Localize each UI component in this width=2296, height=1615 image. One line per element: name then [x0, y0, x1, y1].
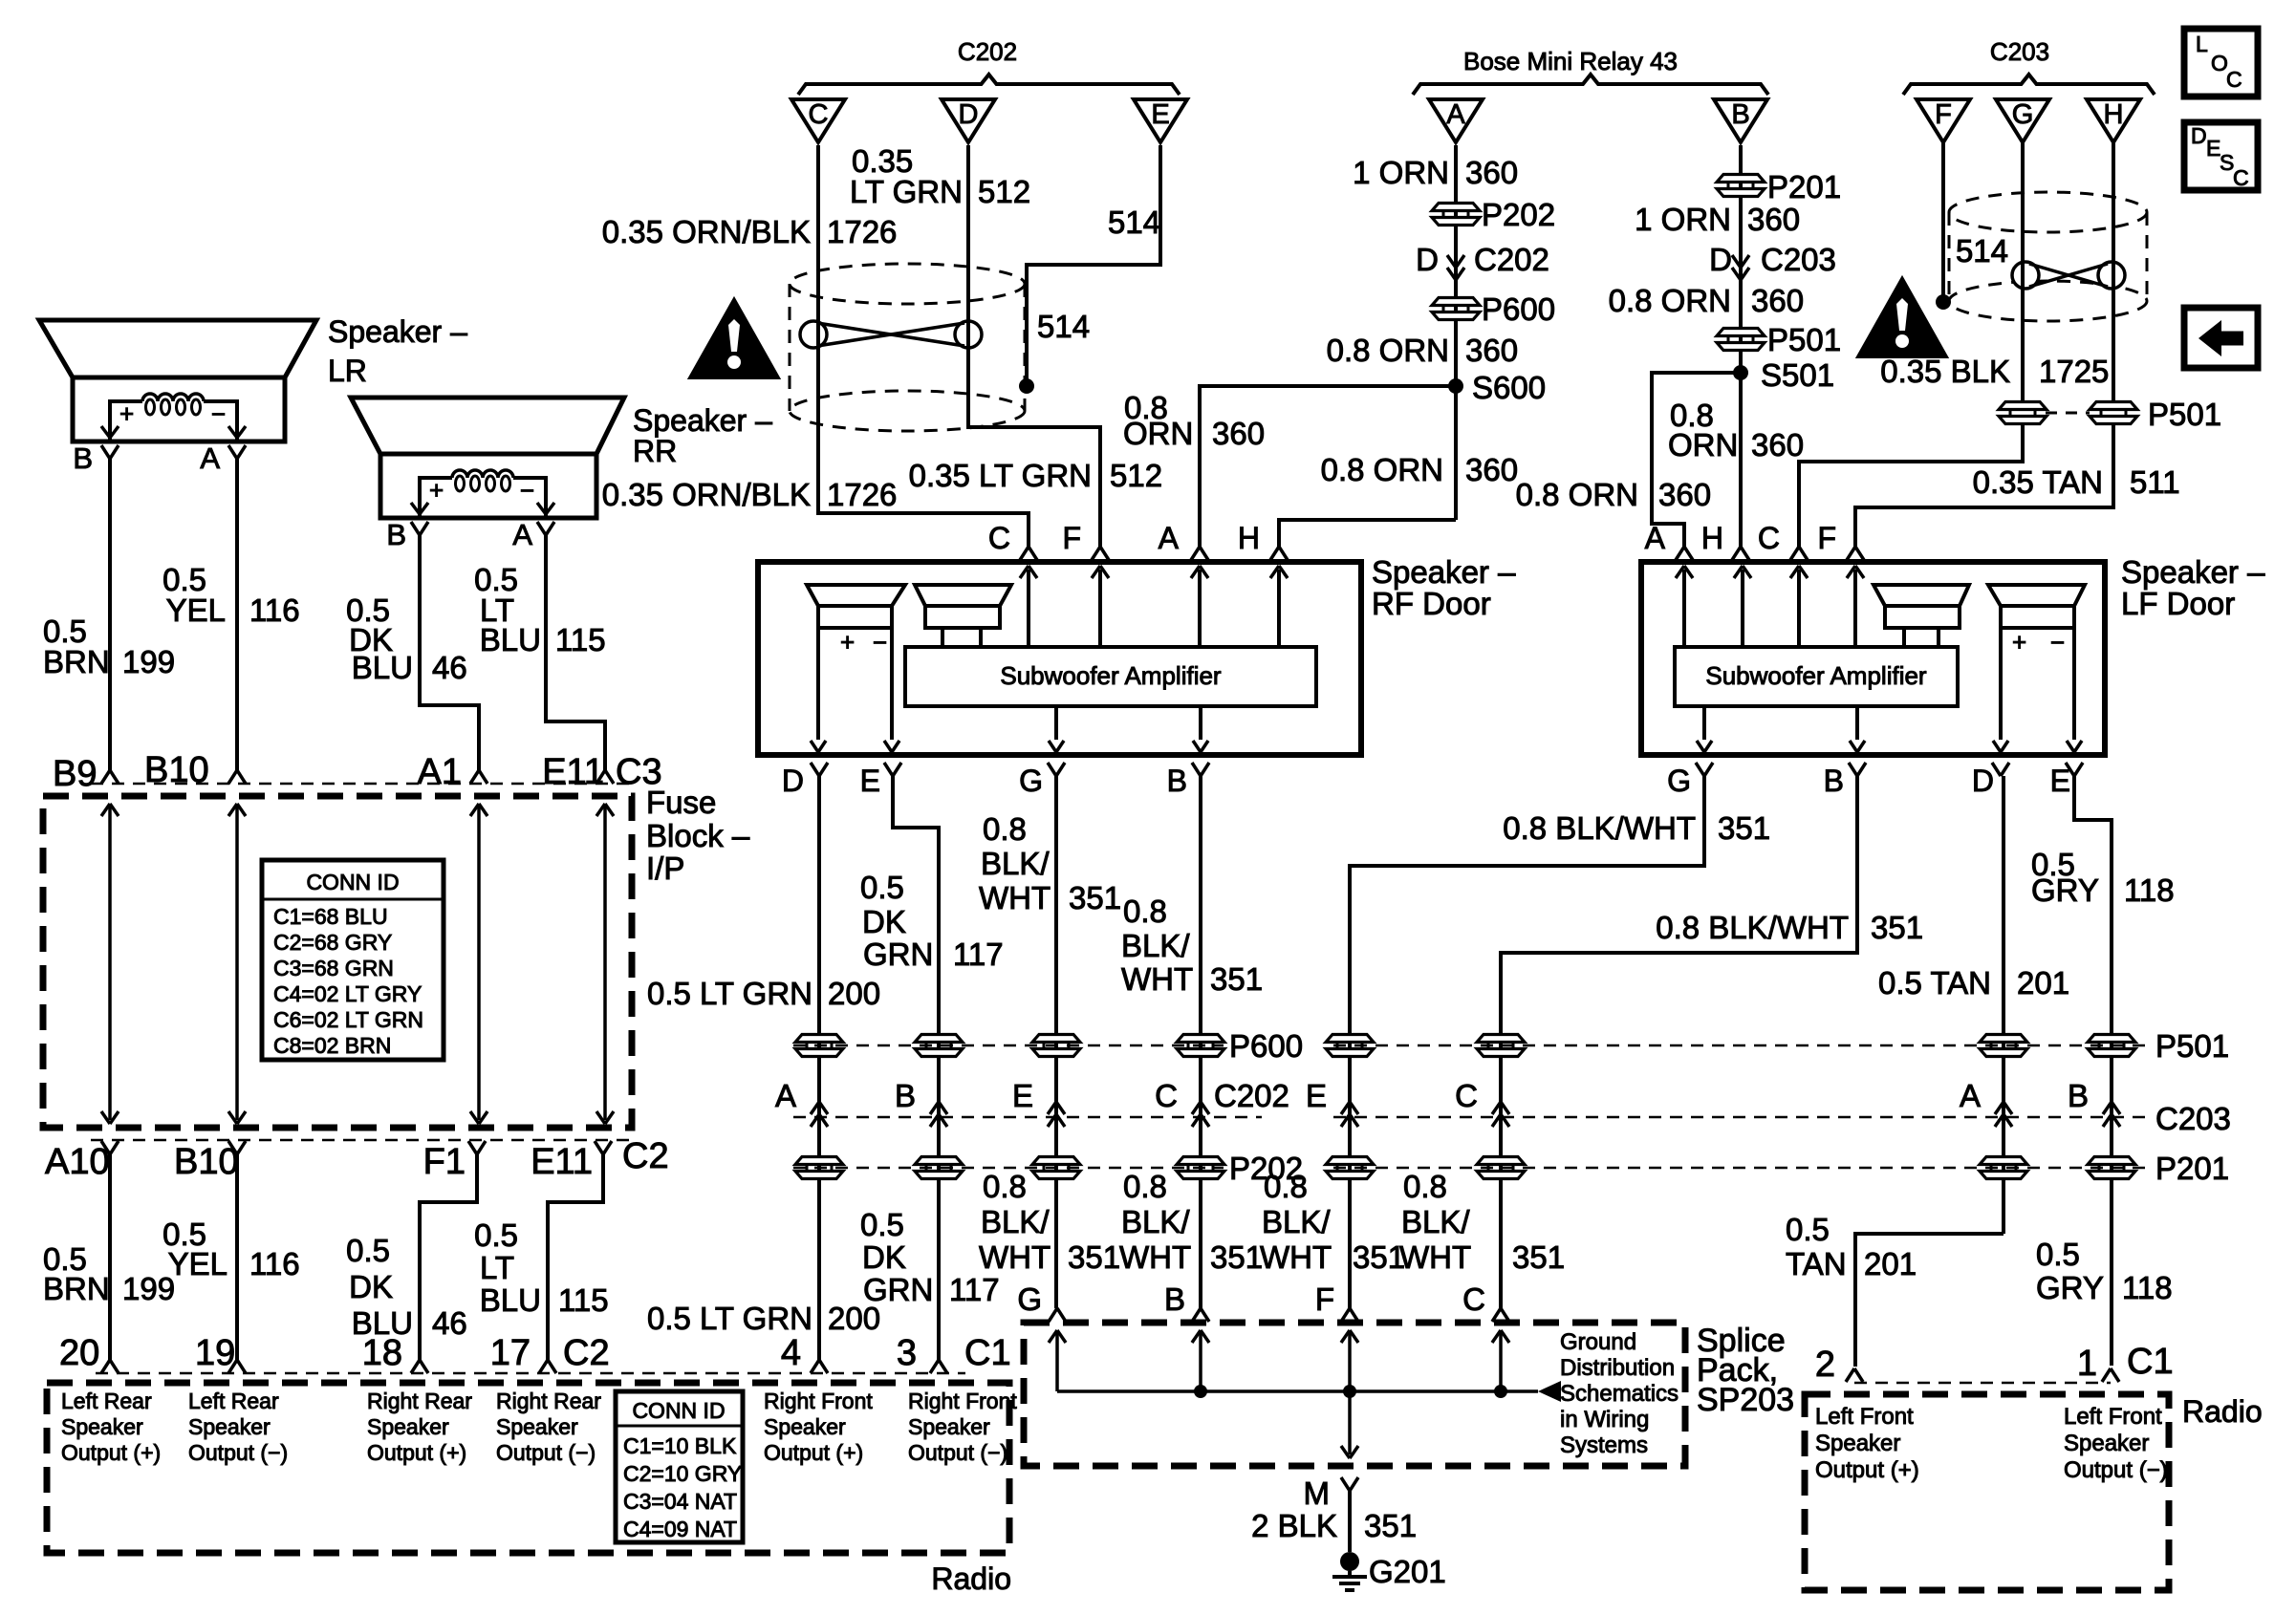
svg-text:C: C: [1758, 521, 1780, 555]
svg-text:0.8: 0.8: [983, 1169, 1027, 1204]
svg-text:Speaker –: Speaker –: [328, 314, 467, 349]
svg-text:BLK/: BLK/: [1121, 1204, 1190, 1239]
svg-text:G: G: [1017, 1281, 1042, 1317]
svg-text:0.8 ORN: 0.8 ORN: [1327, 333, 1449, 368]
svg-text:A: A: [775, 1078, 796, 1113]
svg-text:18: 18: [362, 1333, 402, 1373]
svg-text:SP203: SP203: [1697, 1382, 1794, 1418]
svg-text:+: +: [119, 399, 134, 428]
svg-text:CONN ID: CONN ID: [632, 1398, 725, 1423]
svg-text:0.8 BLK/WHT: 0.8 BLK/WHT: [1503, 810, 1696, 846]
svg-text:Subwoofer Amplifier: Subwoofer Amplifier: [1000, 661, 1222, 690]
svg-text:WHT: WHT: [1260, 1239, 1332, 1275]
svg-text:B: B: [1824, 764, 1844, 798]
svg-text:0.8: 0.8: [983, 811, 1027, 847]
svg-text:351: 351: [1718, 810, 1770, 846]
svg-text:C3=04 NAT: C3=04 NAT: [623, 1489, 737, 1514]
svg-text:C: C: [2226, 67, 2242, 92]
svg-text:G: G: [1019, 764, 1043, 798]
svg-text:Output (−): Output (−): [908, 1440, 1007, 1465]
svg-text:C203: C203: [1990, 37, 2049, 66]
svg-text:TAN: TAN: [1786, 1246, 1847, 1281]
svg-text:BRN: BRN: [43, 1271, 110, 1306]
svg-text:B9: B9: [53, 754, 97, 794]
svg-text:514: 514: [1108, 205, 1160, 240]
svg-text:1726: 1726: [827, 214, 897, 249]
svg-text:351: 351: [1364, 1508, 1417, 1543]
svg-text:Output (+): Output (+): [61, 1440, 161, 1465]
svg-text:P202: P202: [1482, 197, 1555, 232]
svg-text:0.5: 0.5: [474, 1217, 518, 1253]
svg-text:CONN ID: CONN ID: [306, 870, 399, 894]
svg-text:P501: P501: [1767, 322, 1841, 357]
svg-text:A: A: [200, 441, 220, 475]
svg-text:F: F: [1935, 99, 1952, 130]
svg-text:A: A: [1960, 1078, 1981, 1113]
svg-text:115: 115: [555, 622, 606, 657]
svg-text:0.35 TAN: 0.35 TAN: [1973, 464, 2103, 500]
svg-text:Output (+): Output (+): [1815, 1457, 1919, 1483]
svg-text:E: E: [2050, 764, 2070, 798]
svg-text:C203: C203: [2155, 1101, 2231, 1136]
svg-text:S501: S501: [1761, 357, 1834, 393]
svg-text:D: D: [2191, 123, 2207, 148]
svg-text:0.5: 0.5: [860, 870, 904, 905]
svg-text:D: D: [959, 99, 979, 130]
svg-text:G: G: [2012, 99, 2034, 130]
svg-text:H: H: [2104, 99, 2124, 130]
svg-text:I/P: I/P: [646, 851, 684, 886]
svg-text:1 ORN: 1 ORN: [1353, 155, 1449, 190]
svg-text:−: −: [211, 399, 226, 428]
svg-text:BLU: BLU: [352, 650, 413, 685]
svg-text:Radio: Radio: [931, 1561, 1011, 1596]
svg-text:ORN: ORN: [1123, 416, 1193, 451]
svg-text:351: 351: [1871, 910, 1923, 945]
svg-text:20: 20: [59, 1333, 99, 1373]
svg-text:P201: P201: [2155, 1151, 2229, 1186]
svg-text:BLK/: BLK/: [1401, 1204, 1470, 1239]
svg-text:Right Front: Right Front: [764, 1389, 873, 1413]
svg-text:351: 351: [1068, 1239, 1120, 1275]
svg-text:360: 360: [1747, 202, 1800, 237]
svg-text:0.8 ORN: 0.8 ORN: [1516, 477, 1638, 512]
svg-text:C6=02 LT GRN: C6=02 LT GRN: [273, 1007, 423, 1032]
svg-text:GRY: GRY: [2031, 872, 2099, 908]
svg-text:WHT: WHT: [1121, 961, 1193, 997]
svg-text:P600: P600: [1229, 1028, 1303, 1064]
svg-text:Speaker: Speaker: [496, 1414, 578, 1439]
svg-text:B10: B10: [174, 1142, 239, 1182]
svg-text:1: 1: [2077, 1344, 2097, 1384]
svg-text:WHT: WHT: [979, 1239, 1051, 1275]
svg-text:GRY: GRY: [2036, 1270, 2104, 1305]
svg-text:C2=10 GRY: C2=10 GRY: [623, 1461, 742, 1486]
svg-text:Speaker: Speaker: [1815, 1431, 1900, 1456]
svg-text:−: −: [2050, 628, 2065, 657]
svg-text:0.5 LT GRN: 0.5 LT GRN: [647, 1301, 812, 1336]
svg-text:Radio: Radio: [2182, 1394, 2263, 1429]
svg-text:C8=02 BRN: C8=02 BRN: [273, 1033, 391, 1058]
svg-text:351: 351: [1069, 880, 1121, 915]
svg-text:P501: P501: [2148, 397, 2221, 432]
svg-text:0.8 BLK/WHT: 0.8 BLK/WHT: [1656, 910, 1849, 945]
svg-text:BLK/: BLK/: [1121, 928, 1190, 963]
svg-text:+: +: [429, 476, 444, 505]
svg-text:Output (+): Output (+): [367, 1440, 466, 1465]
svg-text:C2: C2: [622, 1136, 669, 1176]
svg-text:Left Rear: Left Rear: [188, 1389, 279, 1413]
svg-text:118: 118: [2124, 872, 2175, 908]
svg-text:0.35 ORN/BLK: 0.35 ORN/BLK: [602, 214, 811, 249]
svg-text:YEL: YEL: [166, 592, 226, 628]
svg-text:LF Door: LF Door: [2121, 586, 2235, 621]
svg-text:L: L: [2196, 32, 2208, 56]
svg-text:in Wiring: in Wiring: [1560, 1407, 1649, 1432]
svg-text:P600: P600: [1482, 291, 1555, 327]
svg-text:F: F: [1817, 521, 1836, 555]
svg-text:Right Rear: Right Rear: [496, 1389, 601, 1413]
svg-text:C202: C202: [958, 37, 1017, 66]
svg-text:Left Rear: Left Rear: [61, 1389, 152, 1413]
svg-text:199: 199: [122, 644, 175, 679]
svg-text:1725: 1725: [2039, 354, 2109, 389]
svg-text:BLK/: BLK/: [981, 1204, 1050, 1239]
svg-text:511: 511: [2130, 464, 2180, 500]
svg-text:B: B: [73, 441, 93, 475]
svg-text:DK: DK: [862, 904, 906, 939]
svg-text:512: 512: [1110, 458, 1162, 493]
svg-text:351: 351: [1210, 1239, 1263, 1275]
svg-text:C202: C202: [1214, 1078, 1289, 1113]
svg-text:360: 360: [1212, 416, 1265, 451]
svg-text:H: H: [1238, 521, 1260, 555]
svg-text:201: 201: [2017, 965, 2069, 1001]
svg-text:0.5 TAN: 0.5 TAN: [1878, 965, 1991, 1001]
svg-text:360: 360: [1751, 283, 1804, 318]
svg-text:116: 116: [249, 592, 300, 628]
svg-text:2: 2: [1815, 1345, 1835, 1385]
svg-text:46: 46: [432, 650, 467, 685]
svg-text:WHT: WHT: [1119, 1239, 1191, 1275]
svg-text:E: E: [1306, 1078, 1327, 1113]
svg-text:Ground: Ground: [1560, 1329, 1636, 1355]
svg-text:Systems: Systems: [1560, 1432, 1648, 1458]
svg-text:2 BLK: 2 BLK: [1251, 1508, 1337, 1543]
svg-text:Speaker: Speaker: [908, 1414, 990, 1439]
svg-text:C: C: [1462, 1281, 1485, 1317]
svg-text:0.8: 0.8: [1264, 1169, 1308, 1204]
svg-text:351: 351: [1210, 961, 1263, 997]
svg-text:0.8: 0.8: [1403, 1169, 1447, 1204]
svg-text:+: +: [2012, 628, 2026, 657]
svg-text:0.35 LT GRN: 0.35 LT GRN: [909, 458, 1092, 493]
svg-text:E: E: [860, 764, 880, 798]
svg-text:BRN: BRN: [43, 644, 110, 679]
svg-text:Block –: Block –: [646, 818, 750, 853]
svg-text:514: 514: [1037, 309, 1090, 344]
svg-text:Bose Mini Relay 43: Bose Mini Relay 43: [1463, 47, 1678, 75]
svg-text:C4=09 NAT: C4=09 NAT: [623, 1517, 737, 1541]
svg-text:117: 117: [953, 937, 1004, 972]
svg-text:Distribution: Distribution: [1560, 1355, 1675, 1381]
svg-text:−: −: [873, 628, 887, 657]
svg-text:YEL: YEL: [168, 1246, 227, 1281]
svg-text:A: A: [1645, 521, 1666, 555]
svg-text:Left Front: Left Front: [2064, 1404, 2162, 1430]
svg-text:Subwoofer Amplifier: Subwoofer Amplifier: [1705, 661, 1927, 690]
svg-text:Speaker: Speaker: [188, 1414, 271, 1439]
svg-text:512: 512: [978, 174, 1030, 209]
svg-text:RR: RR: [633, 434, 677, 468]
svg-text:A: A: [1159, 521, 1180, 555]
svg-text:ORN: ORN: [1668, 427, 1738, 463]
svg-text:360: 360: [1465, 155, 1518, 190]
svg-text:H: H: [1701, 521, 1723, 555]
svg-text:Speaker –: Speaker –: [1372, 554, 1516, 590]
svg-text:D: D: [1416, 242, 1439, 277]
svg-text:200: 200: [828, 1301, 880, 1336]
svg-text:19: 19: [195, 1333, 235, 1373]
svg-text:WHT: WHT: [1399, 1239, 1471, 1275]
svg-text:C: C: [988, 521, 1010, 555]
svg-text:Speaker –: Speaker –: [633, 403, 772, 438]
svg-text:0.5: 0.5: [1786, 1212, 1830, 1247]
svg-text:C: C: [1155, 1078, 1178, 1113]
svg-text:0.5 LT GRN: 0.5 LT GRN: [647, 976, 812, 1011]
svg-text:E11: E11: [542, 752, 604, 792]
svg-text:116: 116: [249, 1246, 300, 1281]
svg-text:0.8 ORN: 0.8 ORN: [1609, 283, 1731, 318]
svg-text:B: B: [1164, 1281, 1185, 1317]
svg-text:0.5: 0.5: [2036, 1237, 2080, 1272]
svg-text:C4=02 LT GRY: C4=02 LT GRY: [273, 981, 422, 1006]
svg-text:1 ORN: 1 ORN: [1635, 202, 1731, 237]
svg-text:Output (−): Output (−): [2064, 1457, 2168, 1483]
svg-text:A1: A1: [418, 752, 462, 792]
svg-text:P201: P201: [1767, 169, 1841, 205]
svg-text:RF Door: RF Door: [1372, 586, 1491, 621]
svg-text:E11: E11: [531, 1142, 593, 1182]
svg-text:LT: LT: [480, 1250, 514, 1285]
svg-text:DK: DK: [349, 1269, 393, 1304]
svg-text:C1: C1: [2127, 1342, 2174, 1382]
svg-text:E: E: [1012, 1078, 1033, 1113]
svg-text:C3=68 GRN: C3=68 GRN: [273, 956, 394, 980]
svg-text:C: C: [1455, 1078, 1478, 1113]
svg-text:360: 360: [1751, 427, 1804, 463]
svg-text:Right Rear: Right Rear: [367, 1389, 472, 1413]
svg-text:514: 514: [1956, 233, 2008, 269]
svg-text:Schematics: Schematics: [1560, 1381, 1679, 1407]
svg-text:Fuse: Fuse: [646, 785, 716, 820]
svg-text:200: 200: [828, 976, 880, 1011]
svg-text:C: C: [2233, 165, 2249, 190]
svg-text:Output (+): Output (+): [764, 1440, 863, 1465]
svg-text:0.5: 0.5: [860, 1207, 904, 1242]
svg-text:D: D: [1972, 764, 1994, 798]
svg-text:3: 3: [897, 1333, 917, 1373]
svg-text:F: F: [1062, 521, 1081, 555]
svg-text:1726: 1726: [827, 477, 897, 512]
svg-text:B: B: [895, 1078, 916, 1113]
svg-text:Speaker: Speaker: [367, 1414, 449, 1439]
svg-text:P501: P501: [2155, 1028, 2229, 1064]
svg-text:Speaker: Speaker: [61, 1414, 143, 1439]
svg-text:A: A: [1446, 99, 1465, 130]
svg-text:C1=10 BLK: C1=10 BLK: [623, 1433, 737, 1458]
svg-text:C: C: [809, 99, 829, 130]
svg-text:A10: A10: [45, 1142, 110, 1182]
svg-text:Right Front: Right Front: [908, 1389, 1017, 1413]
svg-text:0.8 ORN: 0.8 ORN: [1321, 452, 1443, 487]
svg-text:BLU: BLU: [480, 1282, 541, 1318]
svg-text:M: M: [1304, 1475, 1331, 1511]
svg-text:115: 115: [558, 1282, 609, 1318]
svg-text:Speaker: Speaker: [2064, 1431, 2149, 1456]
svg-text:Left Front: Left Front: [1815, 1404, 1914, 1430]
svg-text:360: 360: [1465, 452, 1518, 487]
svg-text:BLK/: BLK/: [981, 846, 1050, 881]
svg-text:F: F: [1315, 1281, 1334, 1317]
svg-text:C2: C2: [563, 1333, 610, 1373]
svg-text:LT GRN: LT GRN: [850, 174, 963, 209]
svg-text:LR: LR: [328, 354, 367, 388]
svg-text:199: 199: [122, 1271, 175, 1306]
svg-text:Speaker –: Speaker –: [2121, 554, 2265, 590]
svg-text:351: 351: [1353, 1239, 1405, 1275]
svg-text:46: 46: [432, 1305, 467, 1341]
svg-text:0.35 ORN/BLK: 0.35 ORN/BLK: [602, 477, 811, 512]
svg-text:351: 351: [1512, 1239, 1565, 1275]
svg-text:BLU: BLU: [480, 622, 541, 657]
svg-text:GRN: GRN: [863, 937, 933, 972]
svg-text:+: +: [840, 628, 855, 657]
svg-text:0.8: 0.8: [1123, 894, 1167, 929]
svg-text:D: D: [782, 764, 804, 798]
svg-text:0.35 BLK: 0.35 BLK: [1880, 354, 2010, 389]
svg-text:C2=68 GRY: C2=68 GRY: [273, 930, 392, 955]
svg-text:B: B: [1731, 99, 1749, 130]
svg-text:118: 118: [2122, 1270, 2173, 1305]
svg-text:DK: DK: [862, 1239, 906, 1275]
svg-text:C202: C202: [1474, 242, 1549, 277]
svg-text:4: 4: [781, 1333, 801, 1373]
svg-text:0.5: 0.5: [346, 1233, 390, 1268]
svg-text:Output (−): Output (−): [496, 1440, 596, 1465]
svg-text:117: 117: [949, 1272, 1000, 1307]
svg-text:S600: S600: [1472, 370, 1546, 405]
svg-text:A: A: [512, 518, 532, 551]
svg-text:D: D: [1709, 242, 1732, 277]
svg-text:Output (−): Output (−): [188, 1440, 288, 1465]
svg-text:201: 201: [1864, 1246, 1917, 1281]
svg-text:C203: C203: [1761, 242, 1836, 277]
svg-text:−: −: [520, 476, 534, 505]
svg-text:F1: F1: [423, 1142, 466, 1182]
svg-text:0.8: 0.8: [1123, 1169, 1167, 1204]
svg-text:E: E: [1151, 99, 1169, 130]
svg-text:B: B: [386, 518, 406, 551]
svg-text:C1: C1: [964, 1333, 1011, 1373]
svg-text:BLK/: BLK/: [1262, 1204, 1331, 1239]
svg-text:Speaker: Speaker: [764, 1414, 846, 1439]
svg-text:G: G: [1667, 764, 1691, 798]
svg-text:B: B: [2068, 1078, 2089, 1113]
svg-text:C1=68 BLU: C1=68 BLU: [273, 904, 388, 929]
svg-text:G201: G201: [1369, 1554, 1446, 1589]
svg-text:17: 17: [490, 1333, 531, 1373]
svg-text:WHT: WHT: [979, 880, 1051, 915]
svg-text:360: 360: [1658, 477, 1711, 512]
svg-text:360: 360: [1465, 333, 1518, 368]
svg-text:B: B: [1167, 764, 1187, 798]
